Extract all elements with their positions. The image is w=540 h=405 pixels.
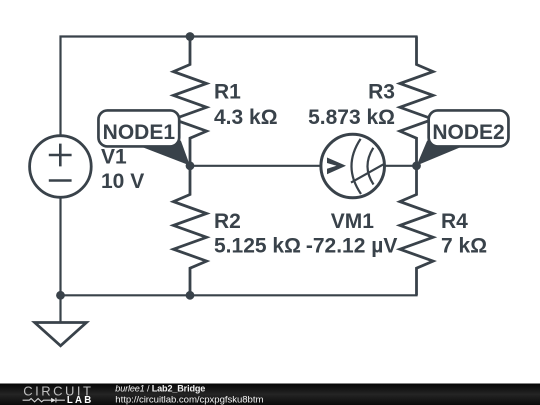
svg-text:NODE1: NODE1 [103, 121, 176, 144]
svg-text:R1: R1 [214, 81, 241, 104]
svg-text:V1: V1 [101, 146, 127, 169]
NODE2 callout tail [417, 141, 461, 166]
svg-text:R2: R2 [214, 210, 241, 233]
NODE1 callout tail [142, 141, 190, 166]
node dot NODE2 junction [412, 161, 421, 170]
svg-text:10 V: 10 V [101, 170, 144, 193]
wire ground stem [59, 295, 61, 322]
svg-text:5.873 kΩ: 5.873 kΩ [308, 106, 395, 129]
svg-text:R4: R4 [441, 210, 468, 233]
wire middle right (voltmeter to NODE2) [384, 165, 416, 167]
NODE1 callout bubble [98, 110, 179, 146]
svg-text:NODE2: NODE2 [432, 121, 504, 144]
svg-text:7 kΩ: 7 kΩ [441, 235, 487, 258]
NODE2 callout bubble [429, 110, 509, 146]
svg-text:VM1: VM1 [331, 210, 375, 233]
svg-text:LAB: LAB [67, 395, 94, 405]
voltmeter chevron [327, 158, 346, 175]
footer bar [0, 384, 540, 405]
voltmeter arc right [367, 148, 373, 185]
node dot bottom R2 [186, 291, 195, 300]
resistor R1 [173, 37, 206, 166]
svg-text:R3: R3 [368, 81, 395, 104]
logo zigzag wire [23, 399, 51, 402]
voltage source V1 circle [30, 136, 92, 198]
node dot top R1 [186, 32, 195, 41]
svg-text:-72.12 µV: -72.12 µV [306, 235, 398, 258]
wire middle left (NODE1 to voltmeter) [190, 165, 321, 167]
resistor R2 [173, 166, 206, 295]
ground symbol [35, 323, 87, 346]
svg-text:http://circuitlab.com/cpxpgfsk: http://circuitlab.com/cpxpgfsku8btm [115, 394, 263, 405]
resistor R4 [400, 166, 433, 295]
node dot NODE1 junction [186, 161, 195, 170]
wire left column lower + bottom horizontal [61, 197, 418, 295]
voltmeter needle [351, 164, 384, 182]
svg-text:5.125 kΩ: 5.125 kΩ [214, 235, 301, 258]
wire top horizontal + left column upper [61, 37, 418, 136]
V1 plus sign [49, 144, 72, 167]
node dot bottom left [56, 291, 65, 300]
svg-text:burlee1 / Lab2_Bridge: burlee1 / Lab2_Bridge [115, 384, 205, 394]
V1 minus sign [49, 179, 72, 182]
resistor R3 [400, 37, 433, 166]
logo diode [51, 398, 56, 403]
svg-text:4.3 kΩ: 4.3 kΩ [214, 106, 278, 129]
voltmeter arc left [351, 139, 361, 194]
voltmeter VM1 circle [321, 134, 385, 198]
